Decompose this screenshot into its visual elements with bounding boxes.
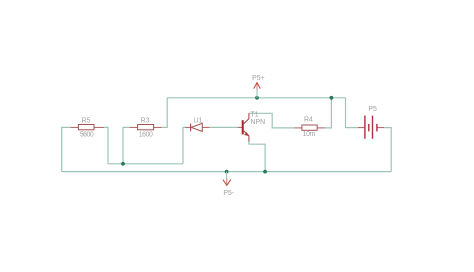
resistor R5 body <box>78 125 94 130</box>
pin R3.2 right <box>154 126 162 128</box>
svg-text:5600: 5600 <box>80 132 94 139</box>
svg-text:T1: T1 <box>251 111 259 118</box>
wire mid rail up to diode U1 left terminal <box>183 127 185 163</box>
pin R5.1 left <box>70 126 78 128</box>
wire T1 emitter down to bottom rail <box>249 142 265 172</box>
junction node mid rail / R3 branch <box>121 162 125 166</box>
pin R3.1 left <box>130 126 138 128</box>
svg-text:R3: R3 <box>141 117 150 124</box>
pin R5.2 right <box>94 126 104 128</box>
svg-text:P5+: P5+ <box>252 75 264 82</box>
probe arrow P5- <box>223 179 231 186</box>
resistor R4 body <box>302 125 317 130</box>
resistor R3 body <box>138 125 154 130</box>
wire T1 collector to R4 left terminal <box>249 113 295 128</box>
wire R3 right terminal up to top rail <box>162 98 168 128</box>
svg-text:P5: P5 <box>368 106 377 113</box>
diode U1 symbol <box>191 123 203 131</box>
pin U1 cathode right <box>202 126 209 128</box>
junction node top rail / R4 branch <box>330 96 334 100</box>
pin R4.1 left <box>295 127 302 129</box>
wire mid rail <box>108 163 183 165</box>
junction node bottom rail / P5- probe <box>225 170 229 174</box>
svg-text:10m: 10m <box>303 131 316 138</box>
pin P5 battery right <box>378 127 385 129</box>
wire diode U1 right to T1 base <box>210 126 238 128</box>
transistor T1 symbol <box>243 113 249 141</box>
pin P5 battery left <box>358 127 364 129</box>
svg-text:U1: U1 <box>194 117 203 124</box>
wire R5 right terminal down to mid rail <box>104 127 108 163</box>
wire mid rail up to R3 left terminal <box>123 127 130 163</box>
battery P5 symbol <box>365 116 377 139</box>
pin T1 base <box>238 126 242 128</box>
junction node top rail / P5+ probe <box>255 96 259 100</box>
wire stub of probe P5- <box>226 172 228 180</box>
svg-text:1600: 1600 <box>139 132 153 139</box>
svg-text:P5-: P5- <box>223 190 234 197</box>
pin U1 anode left <box>185 126 190 128</box>
wire stub of probe P5+ <box>256 89 258 98</box>
wire bottom rail net P5- <box>62 171 392 173</box>
pin R4.2 right <box>317 127 325 129</box>
svg-text:NPN: NPN <box>251 119 266 126</box>
wire top rail net P5+ <box>167 97 345 99</box>
svg-text:R4: R4 <box>304 116 313 123</box>
wire R4 right terminal up to top rail <box>325 98 331 128</box>
wire top rail down to battery left <box>346 98 359 128</box>
probe arrow P5+ <box>254 83 261 90</box>
junction node bottom rail / emitter branch <box>263 170 267 174</box>
wire left edge R5 left terminal down to bottom rail <box>62 127 71 171</box>
wire battery right down to bottom rail <box>384 128 391 172</box>
svg-text:R5: R5 <box>82 117 91 124</box>
